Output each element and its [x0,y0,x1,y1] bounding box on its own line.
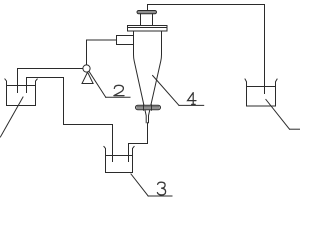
leader line from tank 1 to off-image label [0,97,23,137]
wire: suction pipe from tank 1 to pump [18,69,84,93]
leader line to label 3 [131,174,172,196]
cyclone top cap flange [137,11,157,14]
label 3 [157,182,165,195]
leader line from right tank to off-image label [266,100,300,130]
cyclone inlet pipe [117,36,134,45]
leader line to label 4 [153,76,204,106]
cyclone main flange [128,26,168,32]
wire: feed pipe from pump to cyclone inlet [87,40,117,65]
cyclone vortex finder tube [141,14,153,26]
leader line to label 2 [89,72,130,98]
pump 2 circle [83,65,90,72]
cyclone U4 body and cone [134,31,162,123]
label 4 [188,93,197,105]
wire: underflow pipe from cyclone to tank 3 [129,123,148,162]
wire: overflow pipe from cyclone top to right tank [148,5,265,94]
tank 3 (bottom beaker) [104,146,134,172]
pump 2 triangle [82,72,93,83]
wire: overflow pipe from tank 1 to tank 3 [27,78,113,162]
tank 1 (left beaker) [5,79,37,106]
tank 1 overflow dip pipe [26,78,28,93]
right tank (product beaker) [245,79,277,106]
cyclone bottom flange (hatched) [136,105,161,111]
label 2 [114,85,124,95]
